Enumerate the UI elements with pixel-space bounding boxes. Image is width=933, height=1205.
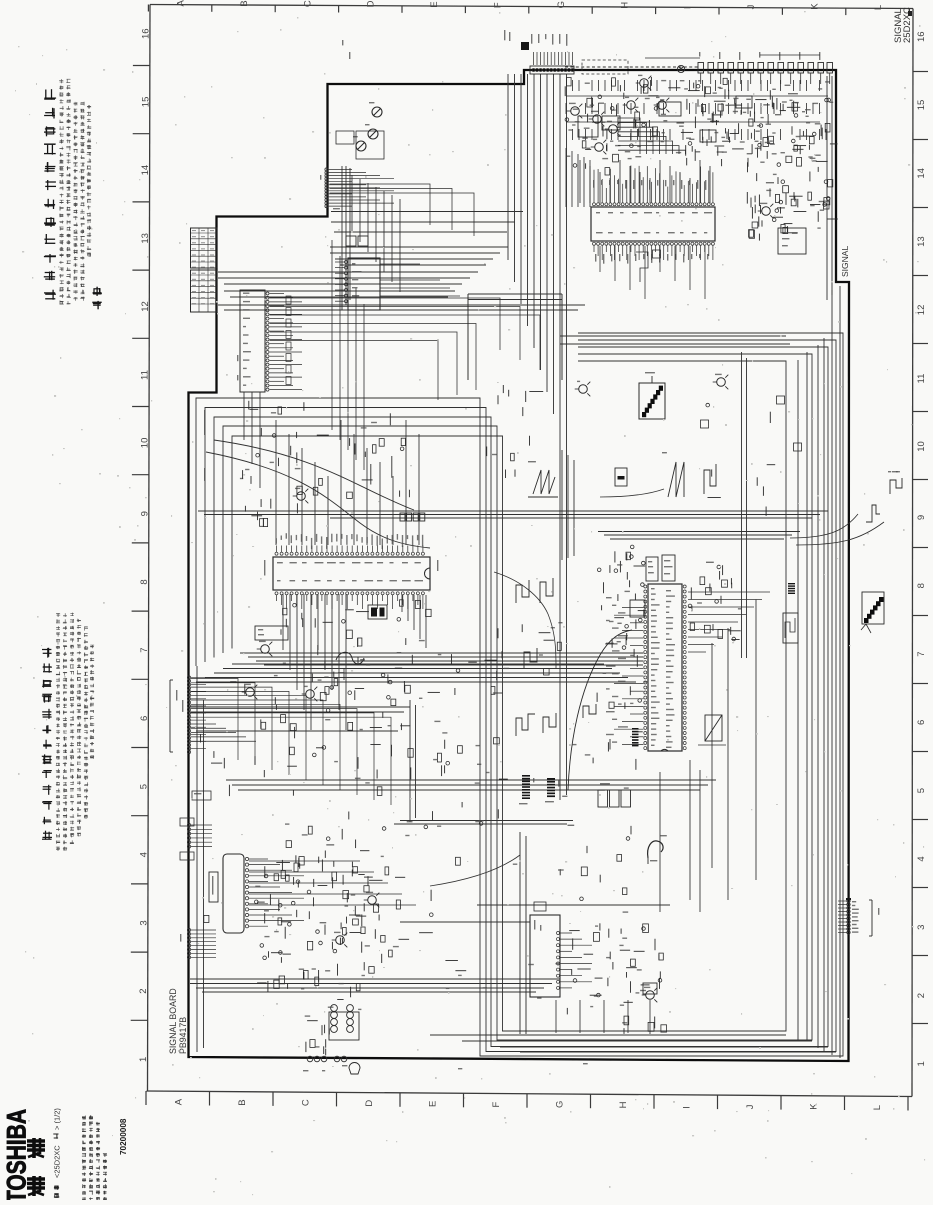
svg-text:SIGNAL: SIGNAL <box>840 246 850 277</box>
svg-text:6: 6 <box>916 720 927 725</box>
svg-text:3: 3 <box>916 925 927 930</box>
svg-text:15: 15 <box>140 97 151 108</box>
svg-text:70200008: 70200008 <box>119 1118 128 1155</box>
svg-text:A: A <box>176 0 187 7</box>
svg-text:9: 9 <box>139 511 150 516</box>
svg-text:8: 8 <box>916 583 927 588</box>
svg-text:10: 10 <box>140 438 151 449</box>
svg-text:J: J <box>746 4 757 9</box>
svg-text:6: 6 <box>139 716 150 721</box>
svg-text:SIGNAL BOARD: SIGNAL BOARD <box>168 988 178 1054</box>
svg-text:K: K <box>810 3 821 10</box>
svg-text:15: 15 <box>916 100 927 111</box>
svg-text:I: I <box>682 1106 693 1109</box>
svg-text:2: 2 <box>138 989 149 994</box>
svg-text:16: 16 <box>916 31 927 42</box>
svg-text:L: L <box>873 5 884 10</box>
svg-text:12: 12 <box>916 305 927 316</box>
svg-text:L: L <box>872 1105 883 1110</box>
svg-text:I: I <box>683 6 694 9</box>
svg-text:2: 2 <box>916 993 927 998</box>
svg-text:16: 16 <box>140 28 151 39</box>
svg-text:13: 13 <box>916 236 927 247</box>
svg-text:PB9417B: PB9417B <box>178 1017 188 1054</box>
svg-text:10: 10 <box>916 441 927 452</box>
svg-text:F: F <box>493 2 504 8</box>
svg-text:11: 11 <box>916 374 927 384</box>
svg-text:13: 13 <box>140 233 151 244</box>
svg-text:D: D <box>366 0 377 7</box>
svg-text:<25D2XC: <25D2XC <box>53 1145 62 1178</box>
svg-text:E: E <box>428 1101 439 1107</box>
svg-text:H: H <box>618 1101 629 1108</box>
svg-text:4: 4 <box>139 852 150 857</box>
svg-text:5: 5 <box>139 784 150 789</box>
svg-text:B: B <box>237 1099 248 1105</box>
svg-text:1: 1 <box>916 1061 927 1066</box>
svg-text:B: B <box>239 0 250 6</box>
svg-text:> (1/2): > (1/2) <box>53 1108 62 1130</box>
svg-text:14: 14 <box>916 168 927 179</box>
svg-text:A: A <box>174 1098 185 1105</box>
svg-text:5: 5 <box>916 788 927 793</box>
svg-text:1: 1 <box>138 1057 149 1062</box>
svg-text:3: 3 <box>138 920 149 925</box>
svg-text:11: 11 <box>140 370 151 380</box>
svg-text:C: C <box>302 0 313 7</box>
svg-text:12: 12 <box>140 301 151 312</box>
svg-text:14: 14 <box>140 165 151 176</box>
svg-text:C: C <box>301 1099 312 1106</box>
svg-text:7: 7 <box>916 651 927 656</box>
svg-text:4: 4 <box>916 856 927 861</box>
svg-text:E: E <box>429 1 440 7</box>
svg-text:H: H <box>619 2 630 9</box>
svg-text:8: 8 <box>139 579 150 584</box>
svg-text:K: K <box>809 1103 820 1110</box>
svg-text:7: 7 <box>139 648 150 653</box>
svg-text:9: 9 <box>916 515 927 520</box>
svg-text:D: D <box>364 1100 375 1107</box>
svg-text:J: J <box>745 1104 756 1109</box>
svg-text:G: G <box>555 1101 566 1108</box>
svg-text:G: G <box>556 1 567 8</box>
svg-text:F: F <box>491 1102 502 1108</box>
